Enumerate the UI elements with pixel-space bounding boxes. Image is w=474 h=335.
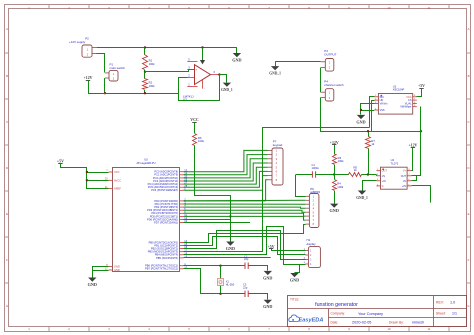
wire R5 to U4 inverting input — [362, 174, 377, 176]
connector P7 keypad — [268, 139, 284, 185]
junction at op-amp V+ branch — [201, 46, 203, 48]
junction wiper column on control row — [420, 130, 422, 132]
svg-text:+IN: +IN — [382, 180, 386, 183]
ground symbol top rail GND — [236, 48, 238, 54]
svg-text:GND_1: GND_1 — [221, 88, 233, 92]
junction R7 bottom / R5 node — [367, 173, 369, 175]
microcontroller U5 ATmega328-PU — [105, 158, 188, 272]
svg-text:1/1: 1/1 — [452, 312, 457, 316]
power arrow into op-amp V+ pin7 — [202, 48, 204, 61]
wire PD7 stub — [184, 222, 251, 224]
svg-text:Drawn By:: Drawn By: — [389, 320, 404, 324]
wire P3 pin1 to GND_1 — [275, 61, 321, 63]
resistor R5 1k — [334, 174, 349, 176]
svg-text:GND: GND — [114, 268, 120, 272]
connector P1 main switch — [105, 63, 125, 81]
svg-text:GND: GND — [263, 275, 272, 280]
svg-text:U4: U4 — [391, 158, 395, 162]
wire R2 bottom to +12V rail — [144, 90, 146, 93]
svg-text:ATmega328-PU: ATmega328-PU — [136, 161, 155, 165]
svg-text:TL072: TL072 — [391, 161, 399, 165]
wire C3 to ground — [249, 294, 268, 300]
svg-text:display: display — [307, 242, 317, 246]
svg-text:VCC: VCC — [190, 118, 199, 122]
wire PB6 crystal row top — [184, 265, 245, 267]
svg-text:+5V: +5V — [57, 159, 64, 163]
svg-text:P2: P2 — [85, 37, 89, 41]
junction at R1 top — [144, 46, 146, 48]
svg-text:-IN: -IN — [382, 175, 386, 178]
svg-text:+5V: +5V — [418, 84, 425, 88]
capacitor C2 22p — [244, 254, 249, 269]
resistor R3 100k — [333, 155, 337, 165]
svg-text:Sheet:: Sheet: — [436, 312, 446, 316]
svg-text:X9C104P: X9C104P — [393, 88, 405, 92]
svg-text:GND: GND — [356, 119, 365, 124]
ground symbol GND_1 (output) — [271, 66, 279, 70]
svg-text:C: C — [6, 120, 8, 124]
svg-text:-: - — [196, 76, 197, 80]
wire P3 pin2 to P4 pin1 — [320, 68, 322, 93]
svg-text:GND: GND — [232, 57, 241, 62]
wire PB5 stub — [184, 257, 271, 259]
svg-text:AVCC: AVCC — [114, 178, 121, 182]
crystal X1 16.000M — [218, 266, 235, 294]
svg-text:1000u: 1000u — [312, 166, 320, 170]
svg-text:OUT: OUT — [382, 170, 388, 173]
svg-text:Company:: Company: — [331, 312, 346, 316]
svg-text:B: B — [468, 74, 470, 78]
op-amp U4 TL072 — [376, 158, 411, 189]
ground symbol GND_1 below U4 — [358, 191, 366, 195]
connector P3 OUTPUT — [321, 49, 337, 71]
wire output to GND_1 stub — [220, 75, 227, 83]
wire riser to U2 UD — [372, 101, 375, 132]
connector P6 ad9833 — [305, 187, 320, 228]
wire P2 pin2 down to P1 pin1 — [97, 54, 105, 73]
connector P4 channel switch — [321, 80, 344, 102]
svg-text:D: D — [467, 166, 469, 170]
wire MCU GND pins to ground — [93, 267, 109, 278]
ground symbol below U2 — [357, 115, 365, 119]
wire U2 VH/VSS to ground — [361, 104, 375, 115]
junction R3/R4 node — [333, 173, 335, 175]
svg-text:A: A — [6, 27, 8, 31]
svg-text:REV:: REV: — [436, 300, 444, 304]
svg-text:nimesh: nimesh — [412, 321, 424, 325]
wire U4 +IN to GND_1 — [363, 181, 377, 191]
svg-text:+12V: +12V — [84, 76, 93, 80]
wire C1 left to P6 pin1 — [296, 175, 306, 197]
capacitor C3 22p — [243, 283, 248, 297]
svg-text:B: B — [6, 74, 8, 78]
capacitor C1 1000u — [296, 174, 312, 176]
svg-text:GND: GND — [114, 265, 120, 269]
svg-text:GND: GND — [290, 277, 299, 282]
wire +5V to U2 VCC — [417, 89, 422, 97]
wire PB1 to H1 pin2 — [184, 237, 306, 255]
wire PB0 to P6 pin8 — [184, 225, 306, 243]
wire PB7 to crystal row bottom — [184, 269, 245, 294]
svg-text:GND: GND — [88, 282, 97, 287]
junction +5V/AVCC — [86, 179, 88, 181]
svg-text:VH/Vin: VH/Vin — [380, 102, 388, 105]
svg-text:keypad: keypad — [273, 143, 283, 147]
svg-text:A: A — [468, 27, 470, 31]
ground symbol below R4 — [330, 204, 338, 208]
resistor R6 100k — [193, 134, 197, 146]
svg-text:100k: 100k — [198, 139, 205, 143]
ground symbol below C3 — [264, 300, 272, 304]
wires MCU port D to P6 — [184, 200, 306, 220]
junction PD6 row with GND branch — [229, 215, 231, 217]
resistor R4 100k — [333, 180, 337, 191]
ground symbol below MCU — [88, 278, 96, 282]
svg-text:PB5 (SCKPCINT5): PB5 (SCKPCINT5) — [156, 256, 178, 260]
wire R4 to ground — [334, 191, 336, 204]
junction R1/R2 node — [144, 70, 146, 72]
wire PB3 long riser to INC row — [184, 128, 370, 252]
svg-text:PC6 (PCINT14RESET): PC6 (PCINT14RESET) — [151, 188, 178, 192]
ground symbol below H1 — [290, 273, 298, 277]
svg-text:-IN: -IN — [403, 180, 407, 183]
svg-text:OUT: OUT — [401, 175, 407, 178]
wire H1 pin4 to ground — [295, 265, 300, 273]
junction P1/+12V rail — [104, 92, 106, 94]
wire PB4 riser — [184, 227, 306, 265]
op-amp U3 LM741J — [183, 58, 219, 102]
svg-text:E: E — [468, 212, 470, 216]
svg-text:GND: GND — [226, 246, 235, 251]
ground symbol GND_1 near op-amp — [223, 83, 231, 87]
resistor R2 100k — [144, 72, 146, 79]
wire U2 wiper down to U4 OUT pin7 — [412, 107, 421, 176]
svg-text:GND_1: GND_1 — [269, 72, 281, 76]
svg-text:10: 10 — [387, 327, 391, 331]
svg-text:+12V: +12V — [408, 144, 417, 148]
title block — [288, 296, 467, 327]
resistor R7 1k — [368, 131, 370, 137]
svg-text:TITLE:: TITLE: — [290, 297, 300, 301]
svg-text:C: C — [467, 120, 469, 124]
svg-text:funstion generator: funstion generator — [315, 302, 358, 308]
svg-text:E: E — [6, 212, 8, 216]
svg-text:+IN: +IN — [402, 185, 406, 188]
svg-text:Your Company: Your Company — [358, 312, 383, 316]
svg-text:100k: 100k — [338, 159, 345, 163]
svg-text:22p: 22p — [244, 257, 249, 261]
junction +5V/VCC — [86, 171, 88, 173]
svg-text:F: F — [468, 258, 470, 262]
junction op-amp output — [218, 73, 220, 75]
svg-text:VW/Wiper: VW/Wiper — [400, 106, 411, 109]
svg-text:AREF: AREF — [114, 187, 121, 191]
wire node to op-amp +IN — [145, 71, 189, 73]
svg-text:G: G — [6, 304, 8, 308]
digital potentiometer U2 X9C104P — [374, 84, 417, 114]
svg-text:PB7 (PCINT7XTAL2TOSC2): PB7 (PCINT7XTAL2TOSC2) — [145, 267, 178, 271]
junction crystal bottom — [219, 293, 221, 295]
svg-text:channel switch: channel switch — [324, 83, 344, 87]
svg-text:GND: GND — [330, 208, 339, 213]
svg-text:F: F — [6, 258, 8, 262]
wire riser to U2 INC — [370, 97, 375, 128]
svg-text:1.0: 1.0 — [450, 300, 455, 304]
wire P2 pin1 to top rail — [97, 47, 237, 49]
wire +12V to U4 V+ — [412, 148, 413, 171]
svg-text:2020-02-05: 2020-02-05 — [352, 321, 371, 325]
connector P2 +12V supply — [69, 37, 97, 58]
ground symbol below wire channel — [226, 242, 234, 246]
EasyEDA logo — [289, 315, 324, 323]
wire U4 pin6 feedback loop — [412, 176, 417, 181]
svg-text:100k: 100k — [149, 84, 156, 88]
svg-text:GND_1: GND_1 — [356, 196, 368, 200]
svg-text:PD7 (PCINT23AIN1): PD7 (PCINT23AIN1) — [154, 221, 178, 225]
svg-text:11: 11 — [428, 6, 431, 10]
svg-text:100k: 100k — [149, 62, 156, 66]
wire U4 pin5 stub — [412, 186, 431, 203]
svg-text:VCC: VCC — [114, 170, 120, 174]
resistor R1 100k — [144, 48, 146, 55]
wires MCU port C to P7 staircase — [184, 150, 268, 201]
wire C2 to ground — [249, 266, 268, 271]
svg-text:+12V supply: +12V supply — [69, 40, 86, 44]
svg-text:U5: U5 — [144, 158, 148, 162]
feedback wire output to inverting input — [179, 75, 220, 101]
svg-text:OUTPUT: OUTPUT — [324, 53, 336, 57]
wire +5V to H1 pin1 — [272, 249, 306, 251]
junction R7 top — [367, 130, 369, 132]
svg-text:11: 11 — [428, 327, 431, 331]
junction crystal top — [219, 265, 221, 267]
svg-text:HL-500: HL-500 — [226, 282, 235, 286]
svg-text:VSS: VSS — [380, 109, 385, 112]
wire PB2 to H1 pin3 — [184, 231, 306, 260]
wire +12V rail to feedback loop — [88, 93, 179, 95]
svg-text:+: + — [195, 68, 197, 72]
wire C1 right to R3/R4 node — [316, 174, 335, 176]
svg-text:EasyEDA: EasyEDA — [299, 317, 324, 323]
svg-text:100k: 100k — [337, 185, 344, 189]
ground symbol below C2 — [264, 271, 272, 275]
wire +5V to VCC/AVCC/AREF — [61, 164, 109, 189]
svg-text:main switch: main switch — [110, 66, 126, 70]
wire R6 to GND branch — [195, 146, 231, 242]
title text — [290, 297, 457, 324]
wire P4 pin2 control row — [321, 98, 421, 132]
wire P1 pin2 down to +12V rail — [104, 78, 106, 93]
svg-text:GND: GND — [263, 304, 272, 309]
svg-text:V+: V+ — [403, 170, 407, 173]
connector H1 display — [304, 238, 321, 267]
svg-text:G: G — [467, 304, 469, 308]
svg-text:V-: V- — [382, 185, 385, 188]
wire PD6 to ground branch — [184, 219, 231, 221]
svg-text:D: D — [6, 166, 8, 170]
svg-text:Date:: Date: — [331, 320, 339, 324]
svg-text:22p: 22p — [243, 285, 248, 289]
svg-text:10: 10 — [387, 6, 391, 10]
svg-text:ad9833: ad9833 — [310, 190, 320, 194]
